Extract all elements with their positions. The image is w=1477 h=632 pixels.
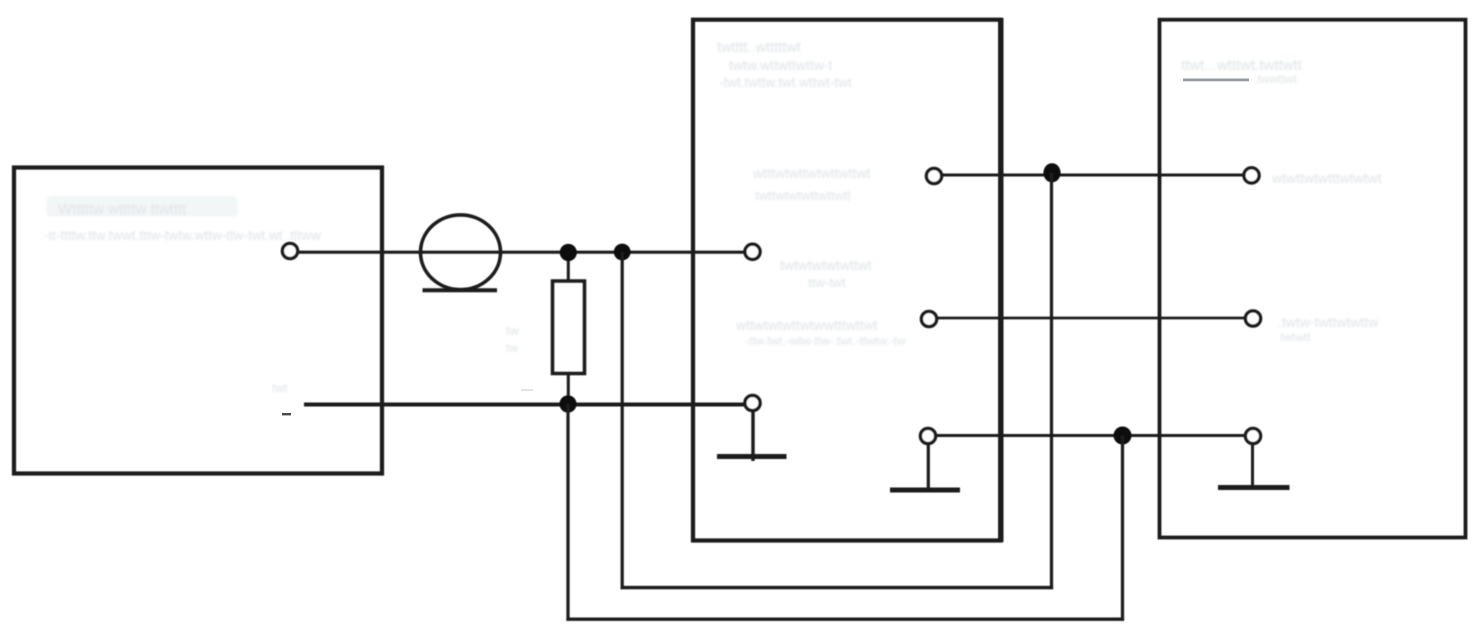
right box title underline dark: [1183, 79, 1249, 82]
svg-text:-ttw.twt.-wtw-ttw-.twt.-ttwtw.: -ttw.twt.-wtw-ttw-.twt.-ttwtw.-tw: [745, 334, 906, 348]
wire: feedback route A bottom horizontal: [621, 586, 1054, 589]
wire: feedback route A vertical from upper-wire tap: [621, 252, 624, 589]
wire: resistor top lead: [567, 252, 570, 281]
wire: feedback route A vertical up to output-1 wire: [1050, 173, 1053, 589]
wire: ground route B vertical from lower-wire junction: [566, 404, 569, 621]
svg-text:twtwtwtwtwttwt: twtwtwtwtwttwt: [780, 257, 872, 273]
terminal: middle box output 1: [926, 168, 941, 183]
terminal: middle box input (upper): [745, 244, 760, 259]
junction dot on upper wire at resistor: [560, 244, 577, 261]
svg-text:twtw.wttwttwttw-t: twtw.wttwttwttw-t: [729, 57, 833, 73]
junction dot on output 3 wire: [1114, 427, 1132, 445]
wire: ground route B vertical up to output-3 wire: [1121, 436, 1124, 621]
svg-text:twttwtwtwttwttwtt: twttwtwtwttwttwtt: [755, 188, 851, 203]
terminal: right box input 2: [1245, 311, 1260, 326]
svg-text:twtttt..wtttttwt: twtttt..wtttttwt: [717, 40, 801, 56]
svg-text:tw: tw: [506, 341, 518, 355]
terminal: left box output (upper): [282, 243, 297, 258]
svg-text:twtwtt: twtwtt: [1280, 330, 1311, 344]
svg-text:twt: twt: [272, 381, 288, 395]
terminal: middle box input (lower): [745, 395, 760, 410]
current transformer bottom bar: [423, 288, 498, 292]
svg-text:wtwttwtwtttwtwtwt: wtwttwtwtttwtwtwt: [1271, 170, 1382, 186]
wire: upper line from left box to middle box: [298, 251, 744, 254]
wire: output 3 to right box: [936, 434, 1245, 437]
wire: resistor bottom lead: [567, 374, 570, 405]
right box (display device): [1160, 20, 1466, 538]
junction dot on upper wire at feedback tap: [614, 244, 631, 261]
svg-text:-twt.twttw.twt.wttwt-twt: -twt.twttw.twt.wttwt-twt: [719, 75, 852, 90]
middle box (measuring device): [693, 20, 1001, 541]
svg-text:tw: tw: [506, 323, 520, 338]
svg-text:wttwtwtwttwtwwtttwttwt: wttwtwtwttwtwwtttwttwt: [735, 317, 878, 333]
svg-text:.twwttwt.: .twwttwt.: [1254, 72, 1300, 86]
wire: ground route B bottom horizontal: [566, 618, 1124, 621]
middle box right edge (bold): [998, 18, 1003, 542]
svg-text:Wtttttw wttttw ttwtttt: Wtttttw wttttw ttwtttt: [58, 201, 187, 218]
current transformer circle: [421, 215, 501, 290]
svg-text:wtttwtwttwtwttwttwt: wtttwtwttwtwttwttwt: [752, 165, 871, 181]
ground: right box input 3: [1251, 444, 1254, 486]
ground: middle box output 3: [927, 444, 930, 488]
wire: output 2 to right box: [937, 317, 1245, 320]
wire: output 1 to right box: [942, 174, 1244, 177]
terminal: middle box output 3 (ground): [920, 428, 935, 443]
resistor R (burden): [553, 281, 585, 374]
left box lower pin dash mark: [282, 413, 291, 415]
terminal: right box input 1: [1244, 168, 1259, 183]
svg-text:ttw-twt: ttw-twt: [808, 275, 846, 290]
terminal: middle box output 2: [921, 311, 936, 326]
svg-text:-tt-ttttw.ttw.twwt.tttw-twtw.w: -tt-ttttw.ttw.twwt.tttw-twtw.wttw-ttw-tw…: [44, 228, 321, 243]
terminal: right box input 3: [1245, 428, 1260, 443]
junction dot on output 1 wire: [1043, 163, 1060, 182]
left box (source device): [14, 168, 382, 474]
junction dot on lower wire at resistor: [559, 395, 576, 412]
ground: middle box lower-left terminal: [751, 411, 754, 461]
svg-text:.twtw-twttwtwttw: .twtw-twttwtwttw: [1278, 314, 1379, 330]
wire: lower line from left box to middle box: [304, 403, 744, 407]
faint text: left box label line 1: [46, 196, 238, 217]
